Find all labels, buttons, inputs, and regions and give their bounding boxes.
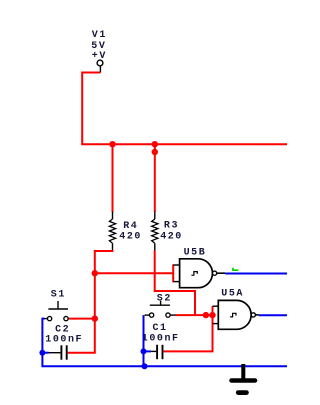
svg-text:420: 420	[119, 231, 142, 242]
NAND gate U5A	[213, 300, 259, 329]
wire +V to top rail	[82, 73, 287, 145]
svg-text:C1: C1	[153, 323, 168, 334]
junction node A / S1 / C2	[92, 315, 98, 321]
power terminal V1 circle	[97, 60, 103, 72]
svg-text:S2: S2	[157, 293, 172, 304]
svg-text:U5A: U5A	[221, 289, 244, 300]
wire rail to R3	[154, 144, 156, 212]
wire S2 to U5A inputs	[176, 314, 213, 316]
wire C1 left stub	[144, 350, 151, 352]
svg-text:100nF: 100nF	[142, 333, 180, 344]
label R4 420	[119, 221, 142, 243]
junction S2 branch on ground rail	[142, 363, 148, 369]
net probe mark green	[233, 268, 238, 270]
capacitor C2	[49, 345, 67, 359]
wire R3 bottom jog to U5A input net	[155, 251, 195, 316]
junction C2 left tap	[39, 350, 45, 356]
svg-text:U5B: U5B	[184, 248, 207, 259]
wire U5A output net	[259, 314, 287, 316]
node A junction	[92, 270, 98, 276]
wire S1 to node A branch	[69, 318, 95, 320]
junction C1 left tap	[141, 348, 147, 354]
wire S2 left to ground rail	[143, 315, 145, 366]
node junction rail-R3	[152, 141, 158, 147]
node junction rail-R4	[109, 141, 115, 147]
wire U5B output net	[225, 273, 287, 275]
NAND gate U5B	[173, 259, 225, 288]
label R3 420	[160, 221, 183, 243]
resistor R4	[109, 212, 115, 252]
wire U5B input tie bar	[172, 264, 174, 282]
wire rail to R4	[112, 144, 114, 212]
label C1 100nF	[142, 323, 180, 344]
wire C2 left stub	[42, 352, 48, 354]
ground	[231, 364, 255, 393]
svg-text:100nF: 100nF	[45, 334, 83, 345]
switch S1	[44, 301, 70, 321]
label C2 100nF	[45, 325, 83, 346]
svg-text:S1: S1	[51, 290, 66, 301]
junction U5A input tie	[209, 312, 215, 318]
switch S2	[145, 301, 176, 318]
svg-text:R3: R3	[164, 221, 179, 232]
svg-text:V1: V1	[92, 30, 107, 41]
voltage source label V1 5V +V	[91, 30, 107, 62]
capacitor C1	[151, 345, 163, 359]
junction on U5A input wire	[203, 312, 209, 318]
svg-text:R4: R4	[123, 221, 138, 232]
wire R4 bottom to node A and down to C2	[68, 251, 114, 353]
svg-text:420: 420	[160, 232, 183, 243]
node junction below rail-R3	[152, 149, 158, 155]
wire U5A input tie bar down to C1	[164, 306, 213, 351]
wire S1 left to ground rail	[42, 319, 287, 367]
wire node A to U5B inputs	[95, 272, 173, 274]
resistor R3	[152, 212, 158, 252]
